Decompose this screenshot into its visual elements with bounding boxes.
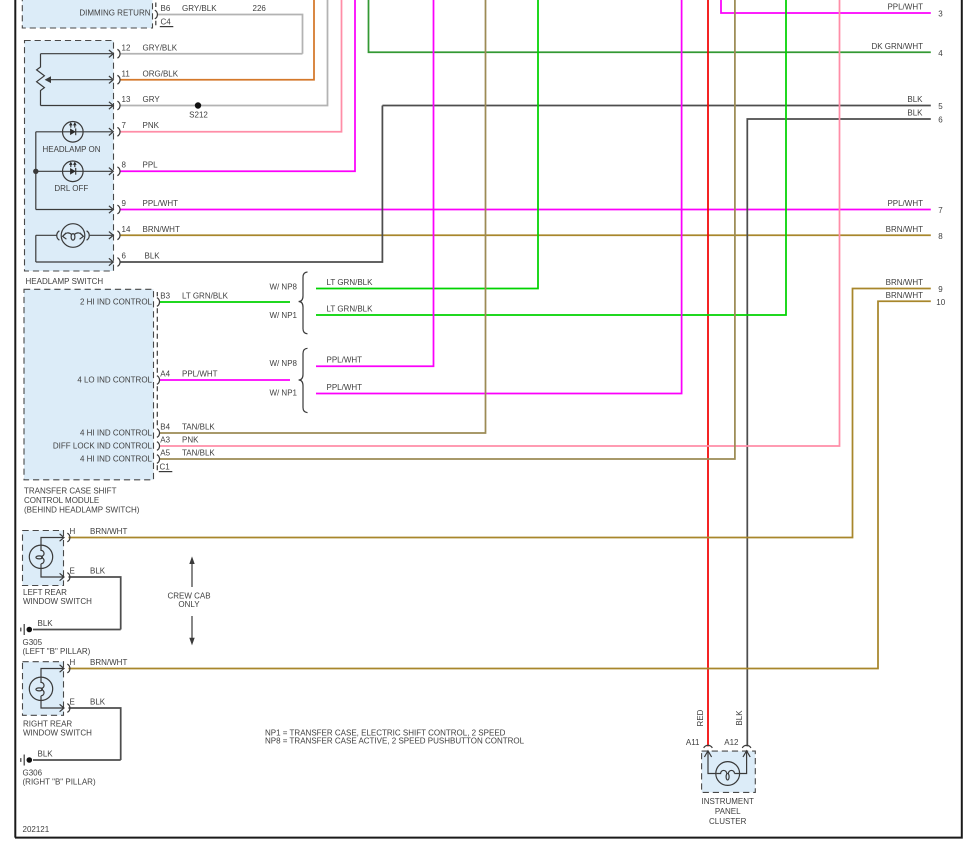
svg-text:DIFF LOCK IND CONTROL: DIFF LOCK IND CONTROL: [53, 442, 153, 451]
svg-text:S212: S212: [189, 111, 208, 120]
svg-text:A5: A5: [160, 448, 170, 457]
svg-text:E: E: [70, 697, 75, 706]
transfer case module pin sockets and C1 connector dashes: [156, 292, 158, 471]
svg-text:4 HI IND CONTROL: 4 HI IND CONTROL: [80, 429, 153, 438]
svg-text:4 HI IND CONTROL: 4 HI IND CONTROL: [80, 455, 153, 464]
headlamp switch internal: wiper lead pin 11 with arrow: [50, 79, 112, 81]
transfer case module pin A5 socket: [157, 455, 160, 464]
headlamp switch pin 7 terminal: [109, 127, 120, 136]
svg-text:9: 9: [122, 199, 127, 208]
wire GRY/BLK from B6 to pin 12 (circuit 226): [120, 15, 303, 54]
svg-text:BRN/WHT: BRN/WHT: [90, 658, 127, 667]
svg-text:C1: C1: [160, 462, 171, 471]
transfer case module pin A3 socket: [157, 442, 160, 451]
svg-text:RIGHT REAR: RIGHT REAR: [23, 719, 72, 728]
svg-text:2 HI IND CONTROL: 2 HI IND CONTROL: [80, 298, 153, 307]
svg-text:BRN/WHT: BRN/WHT: [886, 225, 923, 234]
ground G305: [21, 624, 32, 635]
wire PNK pin 7: [120, 0, 342, 132]
svg-text:ONLY: ONLY: [178, 600, 200, 609]
right rear window switch pin E: [60, 704, 70, 713]
svg-text:INSTRUMENT: INSTRUMENT: [701, 797, 754, 806]
transfer case shift control module box: [24, 289, 154, 480]
wire PNK pin A3: [160, 0, 840, 446]
svg-text:BLK: BLK: [38, 619, 54, 628]
headlamp switch internal: left bus vertical: [36, 132, 112, 210]
headlamp switch pin 12 terminal: [109, 49, 120, 58]
svg-text:A4: A4: [160, 369, 170, 378]
headlamp switch pin 11 terminal: [109, 75, 120, 84]
wire BRN/WHT pin 14 to terminal 8: [120, 234, 931, 236]
svg-text:PANEL: PANEL: [715, 807, 741, 816]
svg-text:BLK: BLK: [90, 697, 106, 706]
headlamp switch pin 6 terminal: [109, 258, 120, 267]
wire BLK right rear window switch E to G306: [33, 708, 121, 760]
svg-text:202121: 202121: [23, 825, 50, 834]
svg-text:(BEHIND HEADLAMP SWITCH): (BEHIND HEADLAMP SWITCH): [24, 506, 140, 515]
cluster pin A12 socket: [742, 745, 751, 757]
headlamp switch pin 13 terminal: [109, 101, 120, 110]
ground G306: [21, 755, 32, 766]
headlamp switch illumination lamp: [36, 224, 112, 262]
svg-text:PNK: PNK: [143, 121, 160, 130]
instrument panel cluster internal wiring and bulb: [708, 752, 747, 786]
svg-text:BLK: BLK: [907, 95, 923, 104]
svg-text:GRY: GRY: [143, 95, 161, 104]
svg-text:GRY/BLK: GRY/BLK: [182, 4, 217, 13]
svg-text:PPL/WHT: PPL/WHT: [327, 356, 363, 365]
transfer case module pin B4 socket: [157, 429, 160, 438]
svg-text:7: 7: [938, 206, 943, 215]
svg-text:TAN/BLK: TAN/BLK: [182, 448, 215, 457]
wire LT GRN/BLK branch W/NP1: [316, 0, 786, 315]
wire PPL/WHT branch W/NP1: [316, 0, 682, 394]
svg-text:(RIGHT "B" PILLAR): (RIGHT "B" PILLAR): [23, 778, 96, 787]
dimming return module box: [22, 0, 152, 28]
svg-text:11: 11: [122, 69, 131, 78]
indicator LED drl off: [36, 161, 112, 182]
transfer case module pin B3 socket: [157, 298, 160, 307]
wire LT GRN/BLK branch W/NP8: [316, 0, 538, 289]
crew cab only range arrow: [191, 559, 193, 644]
svg-text:CREW CAB: CREW CAB: [167, 591, 210, 600]
brace for PPL/WHT branches: [299, 348, 308, 412]
wire BLK left rear window switch E to G305: [33, 577, 121, 630]
svg-text:3: 3: [938, 10, 943, 19]
svg-text:B3: B3: [160, 291, 170, 300]
instrument panel cluster box: [702, 751, 756, 792]
svg-text:7: 7: [122, 121, 127, 130]
svg-text:DIMMING RETURN: DIMMING RETURN: [79, 9, 150, 18]
svg-text:BLK: BLK: [38, 749, 54, 758]
svg-text:BRN/WHT: BRN/WHT: [886, 291, 923, 300]
svg-text:8: 8: [938, 232, 943, 241]
wire BLK terminal 6 to cluster A12: [747, 119, 931, 746]
svg-text:H: H: [70, 658, 76, 667]
svg-text:LT GRN/BLK: LT GRN/BLK: [327, 278, 374, 287]
svg-text:TRANSFER CASE SHIFT: TRANSFER CASE SHIFT: [24, 486, 117, 495]
svg-text:BLK: BLK: [90, 566, 106, 575]
splice S212: [195, 102, 201, 108]
left rear window switch box: [23, 531, 64, 586]
svg-text:B6: B6: [161, 4, 171, 13]
wire RED to cluster A11: [707, 0, 709, 746]
svg-text:DRL OFF: DRL OFF: [54, 184, 88, 193]
wire PPL/WHT pin 9 to terminal 7: [120, 209, 931, 211]
svg-text:BLK: BLK: [145, 252, 161, 261]
svg-text:HEADLAMP ON: HEADLAMP ON: [42, 145, 100, 154]
svg-text:RED: RED: [696, 709, 705, 726]
svg-text:TAN/BLK: TAN/BLK: [182, 422, 215, 431]
indicator LED headlamp on: [36, 122, 112, 143]
brace for LT GRN/BLK branches: [299, 272, 308, 334]
svg-text:BLK: BLK: [907, 109, 923, 118]
wire BRN/WHT left rear window switch H to terminal 9: [69, 289, 931, 538]
left rear window switch bulb: [29, 538, 63, 578]
svg-text:226: 226: [253, 4, 267, 13]
right rear window switch bulb: [29, 669, 63, 709]
svg-text:G305: G305: [23, 638, 43, 647]
headlamp switch box: [25, 41, 114, 272]
left rear window switch pin H: [60, 533, 70, 542]
svg-text:B4: B4: [160, 422, 170, 431]
svg-text:4 LO IND CONTROL: 4 LO IND CONTROL: [77, 376, 152, 385]
svg-text:WINDOW SWITCH: WINDOW SWITCH: [23, 597, 92, 606]
svg-text:12: 12: [122, 43, 131, 52]
svg-text:NP8 = TRANSFER CASE ACTIVE, 2: NP8 = TRANSFER CASE ACTIVE, 2 SPEED PUSH…: [265, 737, 525, 746]
headlamp switch internal: rheostat resistor: [37, 54, 45, 106]
svg-text:BLK: BLK: [735, 710, 744, 726]
svg-text:13: 13: [122, 95, 131, 104]
svg-text:PPL/WHT: PPL/WHT: [887, 3, 923, 12]
svg-text:G306: G306: [23, 768, 43, 777]
headlamp switch pin 14 terminal: [109, 231, 120, 240]
junction dot: [33, 169, 38, 174]
headlamp switch pin 8 terminal: [109, 167, 120, 176]
svg-text:A3: A3: [160, 435, 170, 444]
transfer case module pin A4 socket: [157, 376, 160, 385]
svg-text:6: 6: [938, 116, 943, 125]
dimming return pin B6 socket and C4 connector dashes: [155, 10, 158, 19]
svg-text:LEFT REAR: LEFT REAR: [23, 588, 67, 597]
svg-text:DK GRN/WHT: DK GRN/WHT: [871, 42, 923, 51]
headlamp switch internal: lead to pin 12: [41, 53, 113, 55]
svg-text:CONTROL MODULE: CONTROL MODULE: [24, 496, 99, 505]
right rear window switch box: [23, 662, 64, 716]
svg-text:E: E: [70, 566, 75, 575]
svg-text:LT GRN/BLK: LT GRN/BLK: [182, 291, 229, 300]
wire GRY pin 13: [120, 0, 328, 106]
svg-text:W/ NP8: W/ NP8: [269, 359, 297, 368]
svg-text:HEADLAMP SWITCH: HEADLAMP SWITCH: [26, 277, 104, 286]
svg-text:LT GRN/BLK: LT GRN/BLK: [327, 304, 374, 313]
svg-text:8: 8: [122, 160, 127, 169]
svg-text:BRN/WHT: BRN/WHT: [90, 527, 127, 536]
svg-text:W/ NP8: W/ NP8: [269, 282, 297, 291]
svg-text:ORG/BLK: ORG/BLK: [143, 69, 179, 78]
svg-text:C4: C4: [161, 17, 172, 26]
wire PPL/WHT terminal 3: [721, 0, 931, 13]
svg-text:PPL/WHT: PPL/WHT: [327, 383, 363, 392]
svg-text:9: 9: [938, 285, 943, 294]
svg-text:PPL/WHT: PPL/WHT: [887, 199, 923, 208]
wire LT GRN/BLK pin B3: [160, 301, 291, 303]
svg-text:W/ NP1: W/ NP1: [269, 311, 297, 320]
svg-text:5: 5: [938, 102, 943, 111]
wire BLK pin 6 to terminal 5: [120, 106, 931, 263]
svg-text:H: H: [70, 527, 76, 536]
svg-text:6: 6: [122, 252, 127, 261]
svg-text:PNK: PNK: [182, 435, 199, 444]
wire PPL/WHT branch W/NP8: [316, 0, 434, 366]
svg-text:CLUSTER: CLUSTER: [709, 817, 747, 826]
svg-text:BRN/WHT: BRN/WHT: [143, 225, 180, 234]
svg-text:(LEFT "B" PILLAR): (LEFT "B" PILLAR): [23, 647, 91, 656]
right rear window switch pin H: [60, 664, 70, 673]
cluster pin A11 socket: [704, 745, 713, 757]
wire TAN/BLK pin A5: [160, 0, 735, 459]
svg-text:GRY/BLK: GRY/BLK: [143, 43, 178, 52]
svg-text:PPL/WHT: PPL/WHT: [143, 199, 179, 208]
svg-text:WINDOW SWITCH: WINDOW SWITCH: [23, 729, 92, 738]
left rear window switch pin E: [60, 573, 70, 582]
wire PPL pin 8: [120, 0, 355, 171]
svg-text:A12: A12: [724, 738, 739, 747]
wire PPL/WHT pin A4: [160, 379, 291, 381]
wire TAN/BLK pin B4: [160, 0, 486, 433]
svg-text:A11: A11: [686, 738, 700, 747]
svg-text:PPL/WHT: PPL/WHT: [182, 369, 218, 378]
headlamp switch internal: lead to pin 13: [41, 105, 113, 107]
svg-text:4: 4: [938, 49, 943, 58]
svg-text:PPL: PPL: [143, 160, 159, 169]
svg-text:W/ NP1: W/ NP1: [269, 389, 297, 398]
svg-text:BRN/WHT: BRN/WHT: [886, 278, 923, 287]
svg-text:10: 10: [936, 298, 945, 307]
wire ORG/BLK pin 11: [120, 0, 314, 80]
wire BRN/WHT right rear window switch H to terminal 10: [69, 301, 931, 668]
svg-text:14: 14: [122, 225, 131, 234]
wire DK GRN/WHT terminal 4: [369, 0, 931, 52]
headlamp switch pin 9 terminal: [109, 205, 120, 214]
